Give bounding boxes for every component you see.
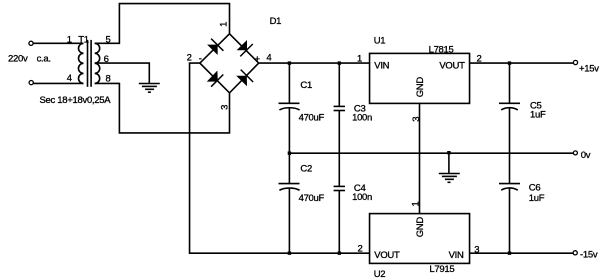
svg-text:470uF: 470uF bbox=[299, 112, 325, 123]
svg-text:c.a.: c.a. bbox=[37, 53, 51, 64]
svg-text:+: + bbox=[255, 54, 261, 65]
svg-text:8: 8 bbox=[106, 73, 111, 84]
svg-text:U2: U2 bbox=[374, 269, 386, 280]
svg-text:VOUT: VOUT bbox=[374, 250, 400, 261]
svg-text:220v: 220v bbox=[8, 53, 28, 64]
svg-text:VIN: VIN bbox=[449, 250, 464, 261]
svg-text:3: 3 bbox=[411, 117, 422, 122]
svg-text:GND: GND bbox=[415, 217, 426, 238]
svg-text:D1: D1 bbox=[270, 16, 282, 27]
svg-text:T1: T1 bbox=[78, 34, 89, 45]
svg-text:470uF: 470uF bbox=[299, 193, 325, 204]
svg-text:C2: C2 bbox=[300, 164, 312, 175]
svg-text:L7915: L7915 bbox=[429, 264, 454, 275]
svg-text:VOUT: VOUT bbox=[439, 60, 465, 71]
svg-text:3: 3 bbox=[219, 105, 230, 110]
svg-text:L7815: L7815 bbox=[429, 44, 454, 55]
svg-text:VIN: VIN bbox=[374, 60, 389, 71]
svg-text:1: 1 bbox=[410, 202, 421, 207]
svg-text:-: - bbox=[199, 54, 202, 65]
svg-text:1: 1 bbox=[357, 53, 362, 64]
svg-text:C1: C1 bbox=[300, 80, 312, 91]
svg-text:1: 1 bbox=[67, 34, 72, 45]
svg-text:100n: 100n bbox=[352, 192, 372, 203]
svg-text:100n: 100n bbox=[352, 112, 372, 123]
svg-text:+15v: +15v bbox=[579, 64, 599, 75]
svg-text:5: 5 bbox=[106, 34, 111, 45]
svg-text:1uF: 1uF bbox=[530, 110, 546, 121]
svg-text:U1: U1 bbox=[374, 36, 386, 47]
svg-text:2: 2 bbox=[358, 244, 363, 255]
svg-text:3: 3 bbox=[474, 244, 479, 255]
svg-text:1uF: 1uF bbox=[529, 193, 545, 204]
svg-text:4: 4 bbox=[67, 73, 72, 84]
svg-text:1: 1 bbox=[219, 22, 230, 27]
svg-text:-15v: -15v bbox=[580, 249, 598, 260]
svg-text:GND: GND bbox=[415, 77, 426, 98]
svg-text:0v: 0v bbox=[581, 150, 591, 161]
svg-text:Sec 18+18v0,25A: Sec 18+18v0,25A bbox=[40, 95, 112, 106]
svg-text:6: 6 bbox=[104, 54, 109, 65]
svg-text:4: 4 bbox=[266, 53, 271, 64]
svg-text:2: 2 bbox=[187, 53, 192, 64]
svg-text:2: 2 bbox=[477, 54, 482, 65]
